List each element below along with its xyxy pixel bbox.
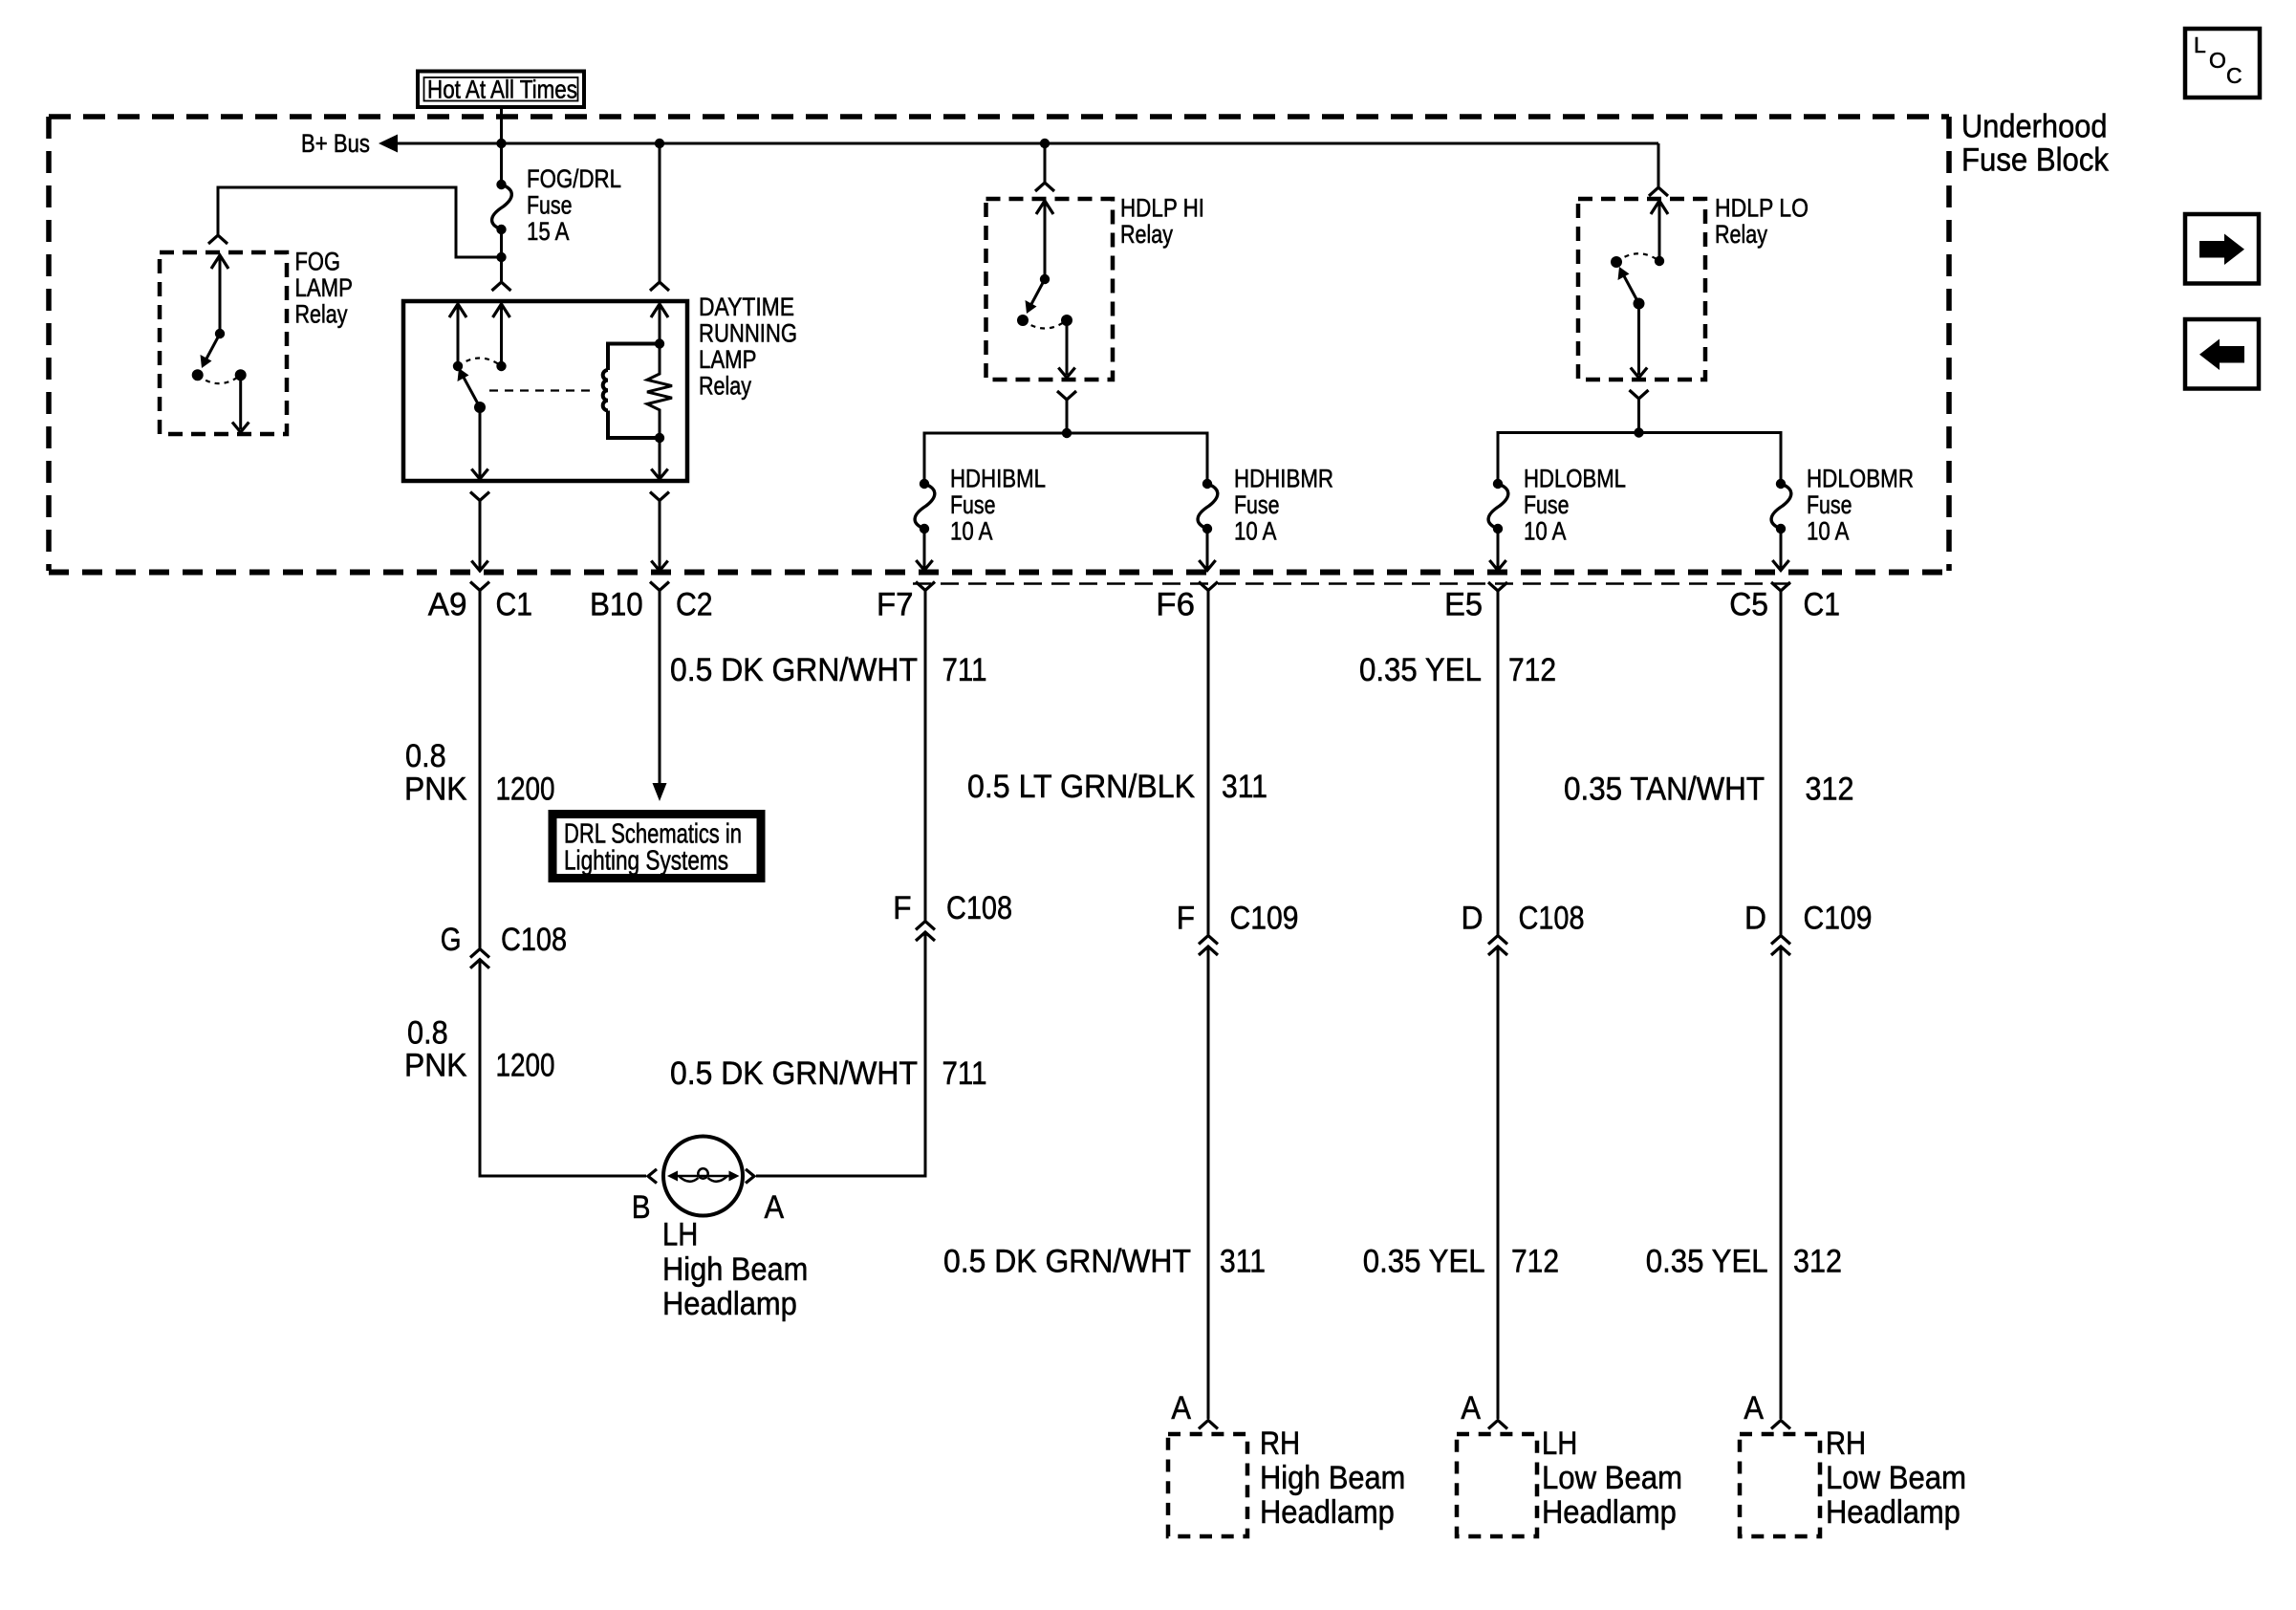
svg-text:0.8: 0.8 (405, 738, 446, 774)
svg-text:10 A: 10 A (1524, 517, 1567, 546)
svg-text:HDHIBML: HDHIBML (950, 465, 1046, 493)
svg-text:0.5 DK GRN/WHT: 0.5 DK GRN/WHT (670, 652, 918, 688)
svg-text:712: 712 (1508, 652, 1556, 688)
svg-text:B10: B10 (590, 587, 643, 623)
svg-text:0.35 YEL: 0.35 YEL (1363, 1244, 1485, 1280)
svg-text:G: G (441, 922, 462, 958)
svg-text:Lighting Systems: Lighting Systems (564, 846, 728, 877)
svg-text:0.5 DK GRN/WHT: 0.5 DK GRN/WHT (943, 1244, 1191, 1280)
svg-text:C109: C109 (1804, 900, 1873, 936)
svg-text:311: 311 (1220, 1244, 1266, 1280)
svg-text:C108: C108 (501, 922, 567, 958)
svg-text:311: 311 (1222, 769, 1267, 805)
svg-text:LH: LH (662, 1217, 698, 1253)
svg-text:FOG: FOG (295, 248, 341, 276)
svg-text:C109: C109 (1230, 900, 1299, 936)
svg-text:Underhood: Underhood (1961, 109, 2108, 145)
svg-text:DAYTIME: DAYTIME (699, 293, 794, 321)
svg-text:C5: C5 (1729, 587, 1768, 623)
svg-text:HDLP LO: HDLP LO (1715, 194, 1809, 223)
svg-text:F: F (893, 890, 911, 926)
svg-text:711: 711 (942, 652, 987, 688)
svg-text:L: L (2194, 33, 2206, 57)
svg-text:PNK: PNK (404, 771, 467, 807)
svg-text:1200: 1200 (496, 1048, 555, 1084)
svg-text:Headlamp: Headlamp (1826, 1494, 1960, 1531)
svg-text:Fuse: Fuse (950, 490, 996, 519)
svg-text:Low Beam: Low Beam (1542, 1460, 1682, 1496)
svg-text:Fuse: Fuse (1234, 490, 1280, 519)
svg-text:A: A (1461, 1390, 1481, 1426)
svg-text:LH: LH (1542, 1425, 1577, 1462)
svg-text:0.35 YEL: 0.35 YEL (1646, 1244, 1768, 1280)
svg-text:Hot At All Times: Hot At All Times (427, 76, 577, 104)
svg-text:RH: RH (1826, 1425, 1866, 1462)
svg-text:Headlamp: Headlamp (1542, 1494, 1677, 1531)
svg-text:Fuse: Fuse (1807, 490, 1852, 519)
svg-text:High Beam: High Beam (662, 1251, 808, 1288)
svg-text:HDLOBMR: HDLOBMR (1807, 465, 1914, 493)
svg-text:High Beam: High Beam (1260, 1460, 1405, 1496)
svg-text:Low Beam: Low Beam (1826, 1460, 1966, 1496)
svg-text:PNK: PNK (404, 1048, 467, 1084)
svg-text:A: A (765, 1189, 785, 1226)
svg-text:Relay: Relay (295, 300, 349, 329)
svg-text:F6: F6 (1156, 587, 1195, 623)
svg-text:312: 312 (1793, 1244, 1842, 1280)
svg-text:C2: C2 (676, 587, 713, 623)
svg-text:0.35 TAN/WHT: 0.35 TAN/WHT (1564, 771, 1765, 807)
svg-text:O: O (2209, 48, 2226, 73)
svg-text:Headlamp: Headlamp (1260, 1494, 1395, 1531)
svg-text:C1: C1 (1804, 587, 1841, 623)
svg-text:A9: A9 (428, 587, 467, 623)
svg-text:C: C (2226, 63, 2242, 88)
svg-text:B+ Bus: B+ Bus (301, 129, 370, 158)
svg-text:Relay: Relay (1120, 220, 1174, 249)
svg-text:RH: RH (1260, 1425, 1300, 1462)
svg-text:312: 312 (1806, 771, 1854, 807)
svg-text:A: A (1744, 1390, 1764, 1426)
svg-text:F: F (1177, 900, 1195, 936)
svg-text:Fuse Block: Fuse Block (1961, 141, 2110, 178)
svg-text:C1: C1 (496, 587, 533, 623)
svg-text:LAMP: LAMP (699, 345, 757, 374)
svg-text:F7: F7 (877, 587, 914, 623)
svg-text:D: D (1744, 900, 1766, 936)
svg-text:Fuse: Fuse (1524, 490, 1570, 519)
svg-text:C108: C108 (1519, 900, 1585, 936)
svg-text:B: B (632, 1189, 651, 1226)
svg-text:10 A: 10 A (1234, 517, 1277, 546)
svg-text:10 A: 10 A (950, 517, 993, 546)
svg-text:HDLP HI: HDLP HI (1120, 194, 1204, 223)
svg-text:C108: C108 (946, 890, 1012, 926)
svg-text:E5: E5 (1444, 587, 1483, 623)
svg-text:711: 711 (942, 1055, 987, 1092)
svg-text:15 A: 15 A (527, 217, 570, 246)
svg-text:712: 712 (1511, 1244, 1559, 1280)
svg-text:FOG/DRL: FOG/DRL (527, 164, 621, 193)
svg-text:D: D (1462, 900, 1484, 936)
svg-text:HDLOBML: HDLOBML (1524, 465, 1626, 493)
svg-text:Relay: Relay (699, 372, 752, 401)
svg-text:0.8: 0.8 (407, 1014, 448, 1051)
svg-text:Fuse: Fuse (527, 191, 573, 220)
svg-text:10 A: 10 A (1807, 517, 1850, 546)
svg-text:A: A (1171, 1390, 1191, 1426)
svg-text:0.5 LT GRN/BLK: 0.5 LT GRN/BLK (967, 769, 1195, 805)
svg-text:Relay: Relay (1715, 220, 1768, 249)
svg-text:Headlamp: Headlamp (662, 1286, 797, 1322)
svg-text:1200: 1200 (496, 771, 555, 807)
svg-text:RUNNING: RUNNING (699, 319, 797, 348)
svg-text:0.35 YEL: 0.35 YEL (1359, 652, 1482, 688)
svg-text:LAMP: LAMP (295, 273, 354, 302)
svg-text:HDHIBMR: HDHIBMR (1234, 465, 1333, 493)
svg-text:0.5 DK GRN/WHT: 0.5 DK GRN/WHT (670, 1055, 918, 1092)
